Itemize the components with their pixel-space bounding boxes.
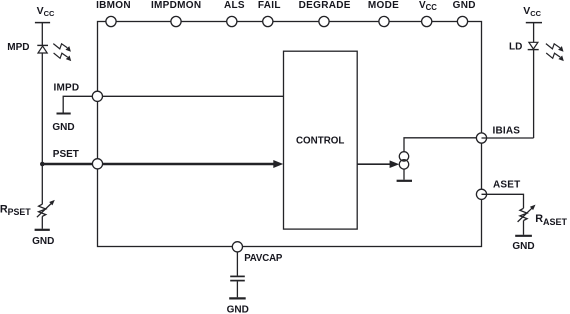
wire VCC to LD (533, 23, 535, 43)
svg-text:IBIAS: IBIAS (493, 125, 521, 136)
wire current source to ground (403, 169, 405, 180)
pin MODE (368, 0, 399, 27)
resistor RASET (variable) (518, 205, 568, 227)
wire RPSET to ground (41, 216, 43, 228)
wire current source to IBIAS (404, 138, 482, 152)
svg-text:LD: LD (509, 42, 522, 53)
wire IBIAS to LD (482, 137, 534, 139)
wire VCC to MPD (41, 23, 43, 46)
pin IMPDMON (151, 0, 201, 27)
out arrow CONTROL to current source (357, 160, 399, 168)
svg-text:FAIL: FAIL (258, 0, 281, 11)
svg-text:ALS: ALS (224, 0, 245, 11)
current source (mirror circles) (399, 152, 408, 169)
resistor RPSET (variable) (0, 200, 55, 217)
svg-text:PAVCAP: PAVCAP (244, 253, 283, 264)
svg-text:CONTROL: CONTROL (296, 136, 344, 147)
svg-text:VCC: VCC (37, 5, 55, 18)
pin IMPD node (54, 83, 103, 102)
svg-text:GND: GND (32, 236, 54, 247)
pin ASET node (476, 180, 520, 200)
svg-text:IMPDMON: IMPDMON (151, 0, 201, 11)
light arrows (MPD) (53, 44, 71, 62)
outer box (IC boundary) (98, 22, 482, 247)
svg-text:GND: GND (453, 0, 476, 11)
svg-text:GND: GND (227, 305, 249, 314)
ground (RPSET) (32, 230, 54, 247)
svg-text:MODE: MODE (368, 0, 399, 11)
wire PAVCAP to capacitor (236, 252, 238, 276)
ground (capacitor) (227, 298, 249, 314)
svg-text:MPD: MPD (7, 42, 29, 53)
wire RASET to ground (523, 221, 525, 235)
wire PSET (thick) to CONTROL (42, 160, 283, 168)
svg-text:DEGRADE: DEGRADE (299, 0, 351, 11)
svg-text:VCC: VCC (419, 0, 437, 12)
light arrows (LD) (546, 44, 564, 62)
wire LD cathode down (533, 49, 535, 138)
pin ALS (224, 0, 245, 27)
power VCC (right) (523, 5, 542, 22)
ground (RASET) (512, 236, 534, 252)
pin GND (top) (453, 0, 476, 27)
wire ASET to RASET (482, 194, 524, 208)
pin PSET node (92, 159, 102, 169)
wire capacitor to ground (236, 281, 238, 297)
svg-text:RPSET: RPSET (0, 204, 31, 218)
svg-text:VCC: VCC (523, 5, 541, 18)
wire MPD down to RPSET (41, 53, 43, 204)
wire IMPD node to CONTROL (97, 95, 283, 97)
wire IMPD node to ground stub (63, 96, 97, 112)
pin PAVCAP node (232, 242, 283, 264)
pin FAIL (258, 0, 281, 27)
control block U1 (284, 51, 358, 229)
node PSET junction (dot) (40, 162, 45, 167)
svg-text:GND: GND (512, 241, 534, 252)
pin IBIAS node (476, 125, 520, 143)
svg-text:IMPD: IMPD (54, 83, 80, 94)
svg-text:RASET: RASET (535, 213, 567, 227)
power VCC (left) (35, 5, 55, 22)
svg-text:ASET: ASET (493, 180, 520, 191)
pin DEGRADE (299, 0, 351, 27)
svg-text:GND: GND (52, 122, 74, 133)
ground (IMPD) (52, 114, 74, 134)
laser diode LD (509, 42, 539, 53)
pin IBMON (96, 0, 131, 27)
svg-text:IBMON: IBMON (96, 0, 131, 11)
capacitor C1 (230, 276, 245, 280)
ground (current source) (397, 180, 412, 182)
svg-text:PSET: PSET (53, 149, 79, 160)
pin VCC (top) (419, 0, 437, 27)
photodiode MPD (7, 42, 48, 53)
